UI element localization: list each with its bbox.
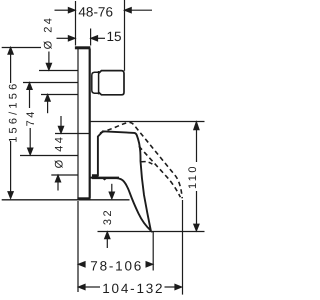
wire knob top extension (O24 top) xyxy=(39,70,78,72)
handle lever raised (dashed) inner edge xyxy=(139,146,181,197)
wire plate bottom / 156 bottom / 32 top reference line xyxy=(2,199,130,201)
svg-text:74: 74 xyxy=(25,109,37,126)
wire left dimension bar (wall reference, 48-76 / 15 left boundary) xyxy=(75,1,77,46)
wire bottom reference line (lowest point, 110/32 bottom) xyxy=(98,231,205,233)
wire 74 bottom extension (handle axis) xyxy=(20,155,78,157)
svg-text:32: 32 xyxy=(102,208,114,225)
svg-text:48-76: 48-76 xyxy=(78,4,113,19)
dimension 48-76 arrow right xyxy=(131,9,153,11)
valve stub neck xyxy=(92,72,99,93)
svg-text:156/156: 156/156 xyxy=(8,81,20,143)
dimension O44 top arrow xyxy=(60,116,62,127)
wire O44 top extension (hub top) xyxy=(55,133,90,135)
valve stub neck/head separator xyxy=(98,71,100,94)
dimension O24 top arrow xyxy=(48,52,50,64)
handle hub foot xyxy=(93,175,99,178)
dimension 78-106 left arrow xyxy=(78,262,85,267)
wire 156 top extension line xyxy=(2,47,41,49)
dashed swing arc at lever kink xyxy=(142,162,153,165)
dimension 156/156 bottom arrow xyxy=(10,141,12,192)
wire left extension line to bottom dims (plate left edge continued) xyxy=(77,201,79,292)
wire 15 right bar (plate face) xyxy=(90,29,92,46)
wire O44 bottom extension (hub bottom) xyxy=(51,174,78,176)
escutcheon plate right edge (thick) xyxy=(89,49,91,198)
dimension 78-106 right arrow xyxy=(146,262,153,267)
dimension 104-132 left arrow xyxy=(78,284,85,289)
dimension 32 bottom arrow xyxy=(106,239,108,249)
wire dashed lever tip extension line xyxy=(182,200,184,295)
dimension 15 arrow right xyxy=(97,37,105,39)
dimension 110 bottom arrow xyxy=(196,191,198,224)
escutcheon plate left edge xyxy=(77,47,79,200)
svg-text:Ø 44: Ø 44 xyxy=(54,135,66,169)
handle lever (solid, lowered) xyxy=(93,131,151,230)
handle lever raised (dashed outline) outer edge xyxy=(100,122,182,198)
dimension 48-76 leader left xyxy=(55,9,70,11)
svg-text:Ø 24: Ø 24 xyxy=(43,16,55,50)
svg-text:78-106: 78-106 xyxy=(90,258,143,273)
dimension O24 bottom arrow xyxy=(47,101,49,113)
dimension 15 leader left xyxy=(57,37,70,39)
svg-text:15: 15 xyxy=(106,29,121,44)
dimension O44 bottom arrow xyxy=(57,183,59,191)
handle underside thick segment xyxy=(90,177,119,179)
valve stub head xyxy=(99,71,124,95)
dimension 110 top arrow xyxy=(196,129,198,162)
escutcheon plate bottom cap xyxy=(77,197,90,200)
dimension 74 bottom arrow xyxy=(29,128,31,148)
escutcheon plate top cap xyxy=(75,46,91,49)
wire 110 top reference line xyxy=(90,121,205,123)
dimension 32 top arrow xyxy=(111,184,113,192)
dimension 74 top arrow xyxy=(29,90,31,109)
dimension 104-132 right arrow xyxy=(175,284,182,289)
wire knob bottom extension (O24 bottom) xyxy=(41,94,78,96)
wire solid lever tip extension line xyxy=(152,232,154,271)
wire front-of-knob extension line (48-76 right boundary) xyxy=(124,0,126,71)
svg-text:104-132: 104-132 xyxy=(102,281,164,296)
dimension 156/156 top arrow xyxy=(10,54,12,83)
wire 74 top extension (knob axis) xyxy=(23,82,78,84)
svg-text:110: 110 xyxy=(187,164,199,189)
